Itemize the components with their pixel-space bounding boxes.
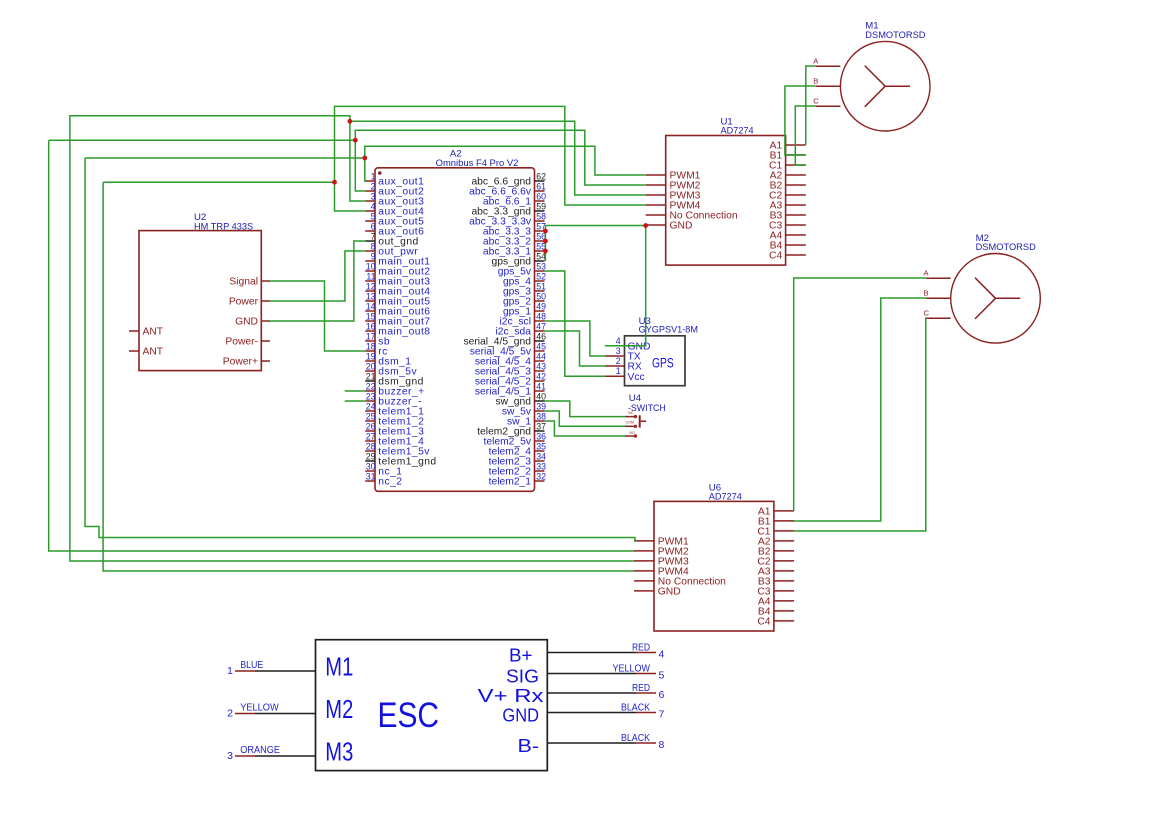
svg-text:V+ Rx: V+ Rx xyxy=(478,685,545,706)
A2 pin 34 telem2_3 xyxy=(489,452,546,468)
U6 pin A1 xyxy=(758,507,794,518)
IC U1 AD7274 xyxy=(666,117,786,266)
svg-text:3: 3 xyxy=(616,346,621,356)
A2 pin 61 abc_6.6_6.6v xyxy=(469,182,546,198)
U1 pin C2 xyxy=(769,191,806,202)
svg-text:NC: NC xyxy=(628,411,634,415)
svg-text:15: 15 xyxy=(366,312,376,322)
M1 pin A xyxy=(813,57,840,67)
svg-text:21: 21 xyxy=(366,372,376,382)
U1 pin PWM4 xyxy=(646,201,701,212)
A2 pin 26 telem1_3 xyxy=(365,422,424,438)
U2 pin Power- xyxy=(225,337,270,348)
A2 pin 16 main_out8 xyxy=(365,322,430,338)
IC U3 GYGPSV1-8M GPS xyxy=(625,316,699,385)
svg-text:AD7274: AD7274 xyxy=(709,491,743,502)
A2 pin 10 main_out2 xyxy=(365,262,430,278)
U2 pin ANT1 xyxy=(129,327,164,338)
svg-text:8: 8 xyxy=(659,739,665,751)
junction xyxy=(332,180,337,185)
svg-text:51: 51 xyxy=(536,282,546,292)
wire net M2.C-U6.C1 xyxy=(794,318,927,531)
svg-text:59: 59 xyxy=(536,202,546,212)
svg-text:32: 32 xyxy=(536,472,546,482)
U1 pin PWM3 xyxy=(646,191,701,202)
ESC pin 5 SIG (YELLOW) xyxy=(506,663,665,686)
svg-text:1: 1 xyxy=(227,665,233,677)
wire net M1.B-U1.B1 xyxy=(785,86,816,155)
svg-text:Signal: Signal xyxy=(229,277,258,288)
A2 pin 3 aux_out3 xyxy=(365,192,424,208)
U1 pin PWM2 xyxy=(646,181,701,192)
U1 pin A2 xyxy=(770,171,806,182)
A2 pin 57 abc_3.3_3 xyxy=(483,222,546,238)
U1 pin B4 xyxy=(770,241,806,252)
A2 pin 31 nc_2 xyxy=(365,472,402,488)
svg-text:ORANGE: ORANGE xyxy=(240,745,280,756)
U1 pin A3 xyxy=(770,201,806,212)
A2 pin 42 serial_4/5_2 xyxy=(475,372,546,388)
A2 pin 37 telem2_gnd xyxy=(477,422,546,438)
svg-text:RED: RED xyxy=(632,683,650,694)
IC U2 HM TRP 433S xyxy=(139,212,261,371)
wire net aux_out3 A2.3-U6.PWM3 xyxy=(70,116,634,561)
svg-text:23: 23 xyxy=(366,392,376,402)
A2 pin 38 sw_1 xyxy=(507,412,546,428)
U6 pin No Connection xyxy=(634,577,726,588)
U2 pin ANT2 xyxy=(129,347,164,358)
junction xyxy=(543,249,548,254)
svg-text:46: 46 xyxy=(536,332,546,342)
svg-text:M1: M1 xyxy=(325,652,353,682)
A2 pin 5 aux_out5 xyxy=(365,212,424,228)
svg-text:6: 6 xyxy=(659,689,665,701)
svg-text:11: 11 xyxy=(366,272,375,282)
U6 pin PWM2 xyxy=(634,547,689,558)
svg-text:-SWITCH: -SWITCH xyxy=(628,403,666,414)
A2 pin 9 main_out1 xyxy=(365,252,430,268)
IC ESC xyxy=(316,640,548,771)
U2 pin Signal xyxy=(229,277,270,288)
A2 pin 35 telem2_4 xyxy=(489,442,546,458)
M2 pin A xyxy=(924,269,951,279)
svg-text:58: 58 xyxy=(536,212,546,222)
svg-text:GND: GND xyxy=(658,587,681,598)
wire buzzer_+ stub xyxy=(345,390,366,392)
A2 pin 56 abc_3.3_2 xyxy=(483,232,546,248)
U1 pin B3 xyxy=(770,211,806,222)
svg-text:61: 61 xyxy=(536,182,546,192)
U6 pin PWM1 xyxy=(634,537,689,548)
svg-text:AD7274: AD7274 xyxy=(721,126,755,137)
U2 pin Power+ xyxy=(223,357,270,368)
svg-text:5: 5 xyxy=(659,670,665,682)
U1 pin GND xyxy=(646,221,693,232)
A2 pin 4 aux_out4 xyxy=(365,202,424,218)
A2 pin 22 buzzer_+ xyxy=(365,382,424,398)
A2 pin 24 telem1_1 xyxy=(365,402,424,418)
svg-text:30: 30 xyxy=(366,462,376,472)
M1 pin B xyxy=(813,77,840,87)
svg-text:GND: GND xyxy=(235,317,258,328)
A2 pin 53 gps_5v xyxy=(498,262,546,278)
wire net aux_out4 A2.4-U1.PWM4 xyxy=(335,106,646,211)
wire net i2c_scl A2.48-U3.TX xyxy=(545,321,605,356)
A2 pin 43 serial_4/5_3 xyxy=(475,362,546,378)
A2 pin 45 serial_4/5_5v xyxy=(470,342,546,358)
svg-text:C4: C4 xyxy=(769,251,782,262)
svg-text:4: 4 xyxy=(616,336,621,346)
switch U4 xyxy=(625,393,666,437)
svg-text:COM: COM xyxy=(626,420,634,424)
svg-text:49: 49 xyxy=(536,302,546,312)
U2 pin Power xyxy=(229,297,270,308)
U6 pin B1 xyxy=(758,517,794,528)
A2 pin 30 nc_1 xyxy=(365,462,402,478)
svg-text:39: 39 xyxy=(536,402,546,412)
svg-text:13: 13 xyxy=(366,292,376,302)
wire net aux_out3 to U1.PWM3 xyxy=(350,121,646,195)
svg-text:7: 7 xyxy=(371,232,376,242)
U1 pin B1 xyxy=(770,151,806,162)
svg-text:62: 62 xyxy=(536,172,546,182)
junction xyxy=(362,156,367,161)
A2 pin 59 abc_3.3_gnd xyxy=(471,202,546,218)
A2 pin 2 aux_out2 xyxy=(365,182,424,198)
svg-text:42: 42 xyxy=(536,372,546,382)
wire net sw_gnd A2.40-U4.NC xyxy=(545,401,626,417)
svg-text:8: 8 xyxy=(371,242,376,252)
svg-text:50: 50 xyxy=(536,292,546,302)
wire net gps_5v A2.53-U3.Vcc xyxy=(545,271,605,376)
A2 pin 62 abc_6.6_gnd xyxy=(471,172,546,188)
A2 pin 60 abc_6.6_1 xyxy=(483,192,546,208)
svg-text:12: 12 xyxy=(366,282,376,292)
svg-text:31: 31 xyxy=(366,472,376,482)
svg-text:C: C xyxy=(813,97,819,106)
svg-text:48: 48 xyxy=(536,312,546,322)
svg-text:40: 40 xyxy=(536,392,546,402)
wire net aux_out1 to U6.PWM1 xyxy=(85,158,635,541)
ESC pin 2 M2 (YELLOW) xyxy=(227,694,353,724)
ESC pin 6 V+ Rx (RED) xyxy=(478,683,665,706)
A2 pin 49 gps_1 xyxy=(503,302,546,318)
svg-text:BLUE: BLUE xyxy=(240,660,264,671)
wire buzzer_- stub xyxy=(345,400,366,402)
wire net aux_out4 branch left xyxy=(103,181,334,183)
svg-text:7: 7 xyxy=(659,709,665,721)
U1 pin C1 xyxy=(769,161,806,172)
U2 pin GND xyxy=(235,317,270,328)
motor M1 DSMOTORSD xyxy=(840,21,930,131)
A2 pin 21 dsm_gnd xyxy=(365,372,424,388)
svg-text:B: B xyxy=(813,77,818,86)
svg-text:3: 3 xyxy=(227,750,233,762)
A2 pin 36 telem2_5v xyxy=(483,432,546,448)
svg-text:28: 28 xyxy=(366,442,376,452)
A2 pin 46 serial_4/5_gnd xyxy=(463,332,546,348)
svg-text:BLACK: BLACK xyxy=(621,702,650,713)
A2 pin 1 aux_out1 xyxy=(365,172,424,188)
svg-text:20: 20 xyxy=(366,362,376,372)
svg-text:GND: GND xyxy=(670,221,693,232)
svg-text:19: 19 xyxy=(366,352,376,362)
A2 pin 44 serial_4/5_4 xyxy=(475,352,546,368)
svg-text:M2: M2 xyxy=(325,694,353,724)
svg-text:45: 45 xyxy=(536,342,546,352)
svg-text:Power: Power xyxy=(229,297,259,308)
A2 pin 50 gps_2 xyxy=(503,292,546,308)
wire net M1.A-U1.A1 xyxy=(806,66,816,145)
svg-text:14: 14 xyxy=(366,302,376,312)
A2 pin 48 i2c_scl xyxy=(500,312,547,328)
U1 pin A1 xyxy=(770,141,806,152)
A2 pin 13 main_out5 xyxy=(365,292,430,308)
wire net gnd to U3.GND xyxy=(605,226,646,346)
svg-text:C4: C4 xyxy=(757,617,770,628)
U6 pin C3 xyxy=(757,587,794,598)
A2 pin 28 telem1_5v xyxy=(365,442,430,458)
svg-text:18: 18 xyxy=(366,342,376,352)
svg-text:24: 24 xyxy=(366,402,376,412)
svg-text:NO: NO xyxy=(629,431,635,435)
svg-text:5: 5 xyxy=(371,212,376,222)
svg-text:SIG: SIG xyxy=(506,666,539,687)
U1 pin A4 xyxy=(770,231,806,242)
U3 pin 3 TX xyxy=(605,346,641,363)
svg-text:41: 41 xyxy=(536,382,546,392)
A2 pin 27 telem1_4 xyxy=(365,432,424,448)
ESC pin 1 M1 (BLUE) xyxy=(227,652,353,682)
A2 pin 6 aux_out6 xyxy=(365,222,424,238)
svg-text:4: 4 xyxy=(371,202,376,212)
wire net GND U2-A2.out_gnd xyxy=(270,241,365,321)
U3 pin 4 GND xyxy=(605,336,650,353)
svg-text:2: 2 xyxy=(371,182,376,192)
wire net aux_out2 A2.2-U1.PWM2 xyxy=(355,130,645,191)
A2 pin 40 sw_gnd xyxy=(496,392,547,408)
wire net aux_out1 branch left xyxy=(85,157,365,159)
ESC pin 3 M3 (ORANGE) xyxy=(227,737,353,767)
wire net i2c_sda A2.47-U3.RX xyxy=(545,331,605,366)
A2 pin 19 dsm_1 xyxy=(365,352,411,368)
svg-text:37: 37 xyxy=(536,422,546,432)
svg-text:telem2_1: telem2_1 xyxy=(489,477,532,488)
U6 pin B2 xyxy=(758,547,794,558)
M2 pin B xyxy=(924,289,951,299)
IC U6 AD7274 xyxy=(654,482,774,631)
A2 pin 47 i2c_sda xyxy=(496,322,547,338)
svg-text:RED: RED xyxy=(632,642,650,653)
svg-text:M3: M3 xyxy=(325,737,353,767)
IC A2 Omnibus F4 Pro V2 xyxy=(375,149,535,492)
U6 pin GND xyxy=(634,587,681,598)
wire net aux_out4 to U6.PWM4 xyxy=(103,182,634,571)
A2 pin 18 rc xyxy=(365,342,388,358)
A2 pin 29 telem1_gnd xyxy=(365,452,436,468)
svg-text:26: 26 xyxy=(366,422,376,432)
junction xyxy=(348,119,353,124)
A2 pin 11 main_out3 xyxy=(365,272,430,288)
svg-text:4: 4 xyxy=(659,649,665,661)
A2 pin 17 sb xyxy=(365,332,390,348)
svg-text:GPS: GPS xyxy=(652,355,674,370)
wire net Signal U2-A2.rc xyxy=(270,281,365,351)
svg-text:10: 10 xyxy=(366,262,376,272)
A2 pin 41 serial_4/5_1 xyxy=(475,382,546,398)
svg-text:Power-: Power- xyxy=(225,337,258,348)
junction xyxy=(643,223,648,228)
junction xyxy=(543,239,548,244)
wire net M1.C-U1.C1 xyxy=(795,106,816,165)
svg-text:25: 25 xyxy=(366,412,376,422)
U1 pin PWM1 xyxy=(646,171,701,182)
U6 pin B3 xyxy=(758,577,794,588)
junction xyxy=(543,229,548,234)
A2 pin 7 out_gnd xyxy=(365,232,418,248)
A2 pin 32 telem2_1 xyxy=(489,472,546,488)
svg-text:36: 36 xyxy=(536,432,546,442)
A2 pin 14 main_out6 xyxy=(365,302,430,318)
svg-text:35: 35 xyxy=(536,442,546,452)
wire net Power U2-A2.out_pwr xyxy=(270,251,365,301)
A2 pin 55 abc_3.3_1 xyxy=(483,242,546,258)
wire net M2.A-U6.A1 xyxy=(794,278,927,511)
svg-text:43: 43 xyxy=(536,362,546,372)
svg-text:2: 2 xyxy=(616,356,621,366)
svg-text:YELLOW: YELLOW xyxy=(613,663,651,674)
svg-text:3: 3 xyxy=(371,192,376,202)
A2 pin 8 out_pwr xyxy=(365,242,418,258)
ESC pin 7 GND (BLACK) xyxy=(502,702,664,725)
svg-text:22: 22 xyxy=(366,382,376,392)
wire net aux_out2 to U6.PWM2 xyxy=(49,140,634,551)
ESC pin 8 B- (BLACK) xyxy=(518,733,665,756)
A2 pin 52 gps_4 xyxy=(503,272,546,288)
svg-text:29: 29 xyxy=(366,452,376,462)
svg-text:53: 53 xyxy=(536,262,546,272)
junction xyxy=(353,138,358,143)
U1 pin B2 xyxy=(770,181,806,192)
M1 pin C xyxy=(813,97,840,107)
svg-text:47: 47 xyxy=(536,322,546,332)
U6 pin C2 xyxy=(757,557,794,568)
svg-text:2: 2 xyxy=(227,708,233,720)
U6 pin C1 xyxy=(757,527,794,538)
svg-text:BLACK: BLACK xyxy=(621,733,650,744)
svg-text:17: 17 xyxy=(366,332,376,342)
svg-text:Omnibus F4 Pro V2: Omnibus F4 Pro V2 xyxy=(436,158,519,169)
U6 pin A2 xyxy=(758,537,794,548)
motor M2 DSMOTORSD xyxy=(951,233,1041,343)
svg-text:HM TRP 433S: HM TRP 433S xyxy=(194,221,253,232)
wire net aux_out2 branch left xyxy=(49,139,356,141)
wire net sw_5v A2.39-U4.COM xyxy=(545,411,626,426)
A2 pin 15 main_out7 xyxy=(365,312,430,328)
M2 pin C xyxy=(924,309,951,319)
svg-text:DSMOTORSD: DSMOTORSD xyxy=(865,30,925,41)
svg-text:nc_2: nc_2 xyxy=(378,477,402,488)
U3 pin 2 RX xyxy=(605,356,642,373)
svg-text:1: 1 xyxy=(371,172,376,182)
wire net M2.B-U6.B1 xyxy=(794,298,927,521)
A2 pin 33 telem2_2 xyxy=(489,462,546,478)
svg-text:16: 16 xyxy=(366,322,376,332)
A2 pin 51 gps_3 xyxy=(503,282,546,298)
svg-text:Vcc: Vcc xyxy=(628,372,645,383)
svg-text:YELLOW: YELLOW xyxy=(240,703,279,714)
svg-text:ANT: ANT xyxy=(143,327,164,338)
U1 pin C3 xyxy=(769,221,806,232)
svg-text:ESC: ESC xyxy=(378,696,440,735)
svg-text:6: 6 xyxy=(371,222,376,232)
svg-text:B+: B+ xyxy=(509,645,533,666)
A2 pin 58 abc_3.3_3.3v xyxy=(469,212,546,228)
U3 pin 1 Vcc xyxy=(605,366,645,383)
svg-text:27: 27 xyxy=(366,432,376,442)
svg-text:44: 44 xyxy=(536,352,546,362)
svg-text:Power+: Power+ xyxy=(223,357,258,368)
wire net sw_1 A2.38-U4.NO xyxy=(545,421,626,436)
ESC pin 4 B+ (RED) xyxy=(509,642,665,665)
wire net gnd U1.GND-A2.57 xyxy=(545,225,645,227)
U6 pin PWM3 xyxy=(634,557,689,568)
svg-text:B: B xyxy=(924,289,929,298)
U6 pin B4 xyxy=(758,607,794,618)
U1 pin No Connection xyxy=(646,211,738,222)
A2 pin 54 gps_gnd xyxy=(491,252,546,268)
svg-text:60: 60 xyxy=(536,192,546,202)
svg-text:DSMOTORSD: DSMOTORSD xyxy=(976,242,1036,253)
wire net aux_out1 A2.1-U1.PWM1 xyxy=(365,146,646,181)
A2 pin 25 telem1_2 xyxy=(365,412,424,428)
U6 pin A3 xyxy=(758,567,794,578)
A2 pin 20 dsm_5v xyxy=(365,362,417,378)
A2 pin 23 buzzer_- xyxy=(365,392,422,408)
svg-text:B-: B- xyxy=(518,735,540,756)
U6 pin C4 xyxy=(757,617,794,628)
wire net gnd A2.57-54 xyxy=(544,226,546,262)
svg-text:GYGPSV1-8M: GYGPSV1-8M xyxy=(639,325,698,336)
A2 pin 12 main_out4 xyxy=(365,282,430,298)
svg-text:1: 1 xyxy=(616,366,621,376)
svg-text:34: 34 xyxy=(536,452,546,462)
svg-text:52: 52 xyxy=(536,272,546,282)
svg-text:ANT: ANT xyxy=(143,347,164,358)
U1 pin C4 xyxy=(769,251,806,262)
svg-text:9: 9 xyxy=(371,252,376,262)
svg-text:38: 38 xyxy=(536,412,546,422)
U6 pin A4 xyxy=(758,597,794,608)
svg-text:33: 33 xyxy=(536,462,546,472)
A2 pin 39 sw_5v xyxy=(502,402,546,418)
svg-text:GND: GND xyxy=(502,705,539,726)
U6 pin PWM4 xyxy=(634,567,689,578)
svg-text:C: C xyxy=(924,309,930,318)
